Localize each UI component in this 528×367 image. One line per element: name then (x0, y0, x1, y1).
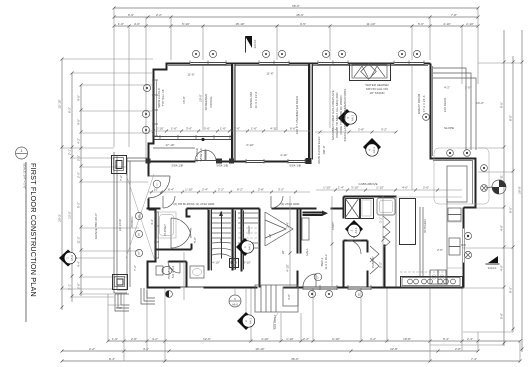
svg-text:A4.1: A4.1 (248, 244, 252, 251)
svg-text:GRADE TBD 96'-6": GRADE TBD 96'-6" (94, 213, 98, 239)
top wall label 11-10 (165, 72, 483, 158)
svg-text:KITCHEN: KITCHEN (423, 219, 427, 232)
svg-text:9'-5": 9'-5" (300, 22, 306, 26)
svg-text:3'-6": 3'-6" (234, 127, 240, 131)
interior vertical dim great room (199, 66, 413, 190)
bedroom door arc (271, 196, 283, 208)
powder room walls (148, 262, 187, 288)
covered deck right dashed (434, 148, 489, 204)
svg-text:1'-0": 1'-0" (465, 86, 471, 90)
interior dim row office y130 (148, 127, 310, 133)
interior wall hall east (298, 209, 301, 288)
exterior wall left entry segment (148, 162, 150, 210)
interior vertical dim laundry right (379, 196, 385, 287)
svg-text:SLOPE: SLOPE (444, 126, 454, 130)
bottom extension drop lines (108, 288, 520, 361)
svg-text:5'-10": 5'-10" (182, 22, 190, 26)
svg-text:(2) PR BI-PASS: (2) PR BI-PASS (173, 202, 194, 206)
svg-text:6'-4": 6'-4" (168, 188, 174, 192)
dimension row top 1 overall (113, 4, 480, 10)
svg-text:1'-6": 1'-6" (220, 127, 226, 131)
svg-text:E: E (138, 252, 140, 256)
notes fireplace top (365, 83, 389, 95)
svg-text:A4.1: A4.1 (372, 147, 376, 154)
porch 5-0 label (108, 305, 130, 310)
closet bipass doors (150, 202, 195, 248)
svg-text:PORCH: PORCH (130, 217, 134, 228)
svg-text:45'-6": 45'-6" (296, 13, 304, 17)
svg-text:4'-0": 4'-0" (287, 294, 291, 300)
svg-text:36'-6": 36'-6" (291, 357, 299, 361)
svg-text:2'-6": 2'-6" (437, 248, 443, 252)
exterior wall left lower (148, 210, 156, 289)
washer box (345, 198, 360, 219)
bath door arc (163, 196, 175, 208)
pantry walls (344, 241, 368, 288)
bench box laundry (377, 198, 395, 215)
svg-text:16'-0 SGD: 16'-0 SGD (195, 147, 199, 162)
svg-text:11'-6": 11'-6" (187, 73, 194, 77)
svg-text:13'-2": 13'-2" (68, 211, 72, 219)
svg-text:A5.0: A5.0 (70, 255, 74, 262)
room label great (417, 93, 426, 114)
svg-text:2'-2": 2'-2" (156, 13, 162, 17)
hall door arc (303, 274, 316, 287)
svg-text:WDW 2-0: WDW 2-0 (199, 148, 203, 161)
great room south wall (147, 209, 344, 217)
right wall window bubble (423, 114, 430, 121)
powder door arc (168, 261, 180, 273)
entry front wall (149, 139, 233, 162)
svg-text:4'-6": 4'-6" (134, 22, 140, 26)
notes under top wall office (157, 88, 165, 108)
porch post bottom (113, 275, 128, 290)
svg-text:TYP SILL 18: TYP SILL 18 (161, 89, 165, 106)
dimension row bottom 1 (107, 337, 522, 343)
svg-text:E: E (138, 233, 140, 237)
svg-text:8'-2": 8'-2" (68, 107, 72, 113)
svg-text:OFFICE: OFFICE (209, 97, 213, 108)
svg-text:5'-6": 5'-6" (418, 22, 424, 26)
svg-text:CLOSET: CLOSET (163, 224, 167, 236)
svg-text:12'-6": 12'-6" (203, 337, 211, 341)
svg-text:A4.1: A4.1 (354, 227, 358, 234)
svg-text:3'-6": 3'-6" (186, 127, 192, 131)
svg-text:11-6 X 10-2: 11-6 X 10-2 (324, 254, 328, 270)
svg-text:1'-10": 1'-10" (323, 186, 331, 190)
svg-text:7'-2": 7'-2" (119, 175, 123, 181)
svg-text:2X6 P.T. PERIMETER DECK: 2X6 P.T. PERIMETER DECK (295, 96, 299, 134)
svg-text:16'-0": 16'-0" (182, 96, 186, 104)
room label dining (249, 91, 258, 108)
svg-text:2'-8": 2'-8" (358, 128, 364, 132)
exterior wall bottom (148, 285, 464, 290)
svg-text:(2) 2X10 HDR: (2) 2X10 HDR (196, 202, 216, 206)
svg-text:2'-8": 2'-8" (455, 347, 461, 351)
svg-text:6'-10": 6'-10" (332, 337, 340, 341)
svg-text:20'-3": 20'-3" (58, 214, 62, 222)
dimension column right 1 (500, 30, 506, 346)
mudroom bench (302, 218, 309, 240)
svg-text:8'-5": 8'-5" (509, 207, 513, 213)
wd notes above laundry (358, 182, 377, 186)
stair newel post (230, 259, 239, 268)
small x marks (306, 158, 312, 164)
svg-text:30": 30" (281, 250, 285, 254)
deck note dining wall (295, 96, 299, 134)
svg-text:2'-4": 2'-4" (467, 337, 473, 341)
svg-text:4'-0": 4'-0" (500, 265, 504, 271)
stair flight east (265, 212, 293, 254)
section marker diamond stairs (236, 238, 254, 256)
svg-text:4'-4": 4'-4" (77, 261, 81, 267)
svg-text:12'-10": 12'-10" (58, 99, 62, 108)
svg-text:3'-1": 3'-1" (379, 217, 383, 223)
svg-text:4'-10": 4'-10" (443, 22, 451, 26)
svg-text:56'-6": 56'-6" (292, 4, 300, 8)
svg-text:4'-5": 4'-5" (77, 95, 81, 101)
svg-text:4'-3": 4'-3" (150, 219, 154, 225)
svg-text:1'-6": 1'-6" (118, 22, 124, 26)
svg-text:5'-6": 5'-6" (204, 127, 210, 131)
svg-text:4'-4": 4'-4" (143, 347, 149, 351)
svg-text:4'-2": 4'-2" (444, 86, 450, 90)
interior dim row great room y132 (315, 128, 398, 134)
column squares along entry wall (146, 159, 235, 164)
elevation marker porch left (59, 250, 114, 267)
exterior wall right kitchen (461, 208, 466, 288)
svg-text:LINEN: LINEN (247, 226, 251, 235)
title bubble (16, 147, 28, 159)
laundry north wall (344, 197, 397, 219)
svg-text:E: E (138, 215, 140, 219)
dryer box (361, 199, 374, 219)
svg-text:3'-10": 3'-10" (351, 186, 359, 190)
svg-text:1'-10": 1'-10" (376, 186, 384, 190)
svg-text:LNDY: LNDY (331, 222, 335, 230)
svg-text:3'-2": 3'-2" (370, 337, 376, 341)
svg-text:A4.1: A4.1 (249, 318, 253, 325)
kitchen west boundary (395, 196, 397, 287)
kitchen counter line (396, 197, 463, 285)
svg-text:11'-6 X 13'-0: 11'-6 X 13'-0 (254, 91, 258, 108)
svg-text:4'-0": 4'-0" (500, 225, 504, 231)
flag marker 2/A4.0 top (245, 36, 257, 53)
right extension tick lines (430, 63, 522, 345)
svg-text:1'-6": 1'-6" (171, 127, 177, 131)
svg-text:3/S4.1/B: 3/S4.1/B (289, 164, 301, 168)
svg-text:10'-8": 10'-8" (403, 337, 411, 341)
porch steps bottom-left (115, 288, 155, 311)
left extension tick lines (62, 59, 153, 297)
svg-text:(2) 2X10: (2) 2X10 (118, 219, 122, 231)
top extension drop lines (114, 8, 478, 160)
svg-text:6X6 POST: 6X6 POST (273, 315, 277, 330)
svg-text:5'-0": 5'-0" (193, 237, 197, 243)
grade note left (94, 213, 98, 239)
kitchen island (400, 199, 428, 245)
svg-text:7'-8": 7'-8" (451, 13, 457, 17)
svg-text:4'-10": 4'-10" (212, 261, 220, 265)
top wall windows (190, 61, 425, 66)
interior dim row entry y192 (148, 188, 310, 194)
dimension row bottom 2 (61, 347, 480, 353)
svg-text:1'-10": 1'-10" (185, 188, 193, 192)
interior vertical dim hall (286, 196, 292, 287)
hall room labels (193, 222, 375, 268)
svg-text:26'-9": 26'-9" (518, 186, 522, 194)
dimension column left 1 (58, 58, 64, 311)
section marker diamond great room 1 (338, 109, 357, 127)
svg-text:GREAT ROOM: GREAT ROOM (417, 93, 421, 114)
kitchen sink (449, 238, 460, 255)
porch edge left (114, 148, 195, 293)
svg-text:A4.1: A4.1 (351, 115, 355, 122)
svg-text:4'-10": 4'-10" (243, 261, 251, 265)
svg-text:5'-0": 5'-0" (116, 306, 122, 310)
svg-text:2'-10": 2'-10" (156, 127, 164, 131)
hall overlook wall stub (303, 211, 329, 217)
section marker diamond laundry (345, 220, 363, 238)
svg-text:HALL: HALL (305, 248, 309, 256)
svg-text:2/A4.0: 2/A4.0 (253, 39, 257, 48)
svg-text:11'-2": 11'-2" (77, 236, 81, 243)
office sw jog (149, 137, 154, 162)
svg-text:4'-10": 4'-10" (286, 264, 290, 272)
office front window wall (154, 135, 233, 140)
svg-text:4'-10": 4'-10" (261, 337, 269, 341)
svg-text:6'-6": 6'-6" (128, 13, 134, 17)
exterior wall top-left jog (154, 63, 167, 139)
svg-text:2'-1": 2'-1" (68, 149, 72, 155)
sill labels under entry wall (171, 164, 301, 168)
svg-text:11'-6": 11'-6" (266, 72, 273, 76)
svg-text:2'-3": 2'-3" (77, 172, 81, 178)
svg-text:MAIN FLOOR ELEV: MAIN FLOOR ELEV (317, 136, 321, 163)
deck post circles (447, 150, 488, 259)
interior stair wall (242, 209, 244, 272)
svg-text:5'-2": 5'-2" (77, 202, 81, 208)
porch roof diagonal (118, 174, 154, 258)
svg-text:CABS ABOVE: CABS ABOVE (358, 182, 377, 186)
svg-text:PANTRY: PANTRY (371, 256, 375, 268)
wdw label dot (201, 138, 204, 141)
svg-text:7'-4": 7'-4" (471, 357, 477, 361)
master bath tub (157, 212, 176, 238)
svg-text:1'-6": 1'-6" (112, 337, 118, 341)
deck steps top right (433, 68, 476, 150)
svg-text:16'-10": 16'-10" (255, 347, 264, 351)
section marker diamond below plan (237, 288, 255, 330)
bath closet wall (156, 209, 212, 271)
dimension column left 3 (77, 84, 83, 297)
svg-text:3'-2": 3'-2" (278, 188, 284, 192)
laundry door arc (347, 240, 361, 254)
interior vertical dim laundry mid (331, 196, 334, 287)
main floor elev note (317, 136, 326, 163)
svg-text:17'-2 X 24'-6: 17'-2 X 24'-6 (422, 95, 426, 112)
powder toilet (156, 266, 172, 275)
svg-text:6'-2": 6'-2" (237, 188, 243, 192)
keyplan circle right (486, 180, 506, 194)
svg-text:2'-4": 2'-4" (202, 188, 208, 192)
svg-text:1'-4": 1'-4" (338, 186, 344, 190)
svg-text:8'-5": 8'-5" (500, 102, 504, 108)
room label office (182, 93, 213, 111)
interior dim row laundry y190 (316, 186, 462, 192)
svg-text:DINING RM: DINING RM (249, 92, 253, 109)
svg-text:7'-2": 7'-2" (133, 265, 137, 271)
svg-text:4'-6": 4'-6" (402, 186, 408, 190)
svg-text:100'-0": 100'-0" (322, 145, 326, 154)
svg-text:1'-10": 1'-10" (286, 337, 294, 341)
powder sink (190, 266, 204, 278)
door bubble hall (314, 273, 322, 281)
kitchen lower cabinets (430, 270, 446, 284)
interior wall dining/great (308, 64, 312, 162)
exterior wall top (167, 64, 431, 66)
svg-text:17'-10": 17'-10" (165, 143, 174, 147)
svg-text:UP: UP (268, 234, 272, 238)
wdw note entry (195, 147, 203, 162)
linen label (247, 226, 251, 235)
svg-text:2'-6": 2'-6" (423, 186, 429, 190)
kitchen upper cabinets dashed (400, 207, 447, 276)
svg-text:SCREENED: SCREENED (204, 93, 208, 111)
marker half-dark circle bottom wall (166, 291, 173, 298)
svg-text:3/S4.1/B: 3/S4.1/B (216, 164, 228, 168)
svg-text:15'-10": 15'-10" (235, 22, 244, 26)
svg-text:1'-6": 1'-6" (251, 127, 257, 131)
svg-text:18" STAND: 18" STAND (369, 91, 385, 95)
svg-text:A6.0: A6.0 (232, 303, 239, 307)
svg-text:5'-4": 5'-4" (443, 337, 449, 341)
svg-text:3'-2": 3'-2" (381, 128, 387, 132)
title text (23, 162, 39, 322)
hall closet texts (320, 254, 328, 270)
svg-text:2X6 DECK: 2X6 DECK (443, 98, 447, 113)
svg-text:DN: DN (219, 238, 223, 242)
interior wall office/dining (231, 64, 235, 162)
svg-text:4'-11": 4'-11" (280, 153, 287, 157)
svg-text:11'-10": 11'-10" (366, 22, 375, 26)
svg-text:1: 1 (21, 149, 23, 153)
rear stoop steps bottom center (255, 285, 298, 330)
svg-text:2'-2": 2'-2" (218, 188, 224, 192)
pantry shelves chevrons (370, 216, 390, 288)
svg-text:5'-2": 5'-2" (379, 262, 383, 268)
front door arc (148, 176, 170, 198)
section marker diamond great room 2 (363, 138, 381, 156)
dining front wall with sliding doors (233, 159, 306, 164)
dimension row bottom 3 (61, 357, 522, 363)
svg-text:3'-10": 3'-10" (246, 143, 254, 147)
dimension column right 3 (518, 30, 524, 352)
porch label (119, 175, 137, 271)
svg-text:2'-10": 2'-10" (466, 22, 474, 26)
window bubbles lower left (135, 212, 142, 256)
kitchen range (401, 277, 463, 288)
svg-text:FIRST FLOOR CONSTRUCTION PLAN: FIRST FLOOR CONSTRUCTION PLAN (29, 163, 38, 297)
svg-text:22'-8": 22'-8" (390, 347, 398, 351)
svg-text:2'-8": 2'-8" (258, 188, 264, 192)
svg-text:1/A4.0: 1/A4.0 (488, 266, 497, 270)
porch post top (112, 156, 127, 174)
svg-text:20'-0": 20'-0" (199, 94, 203, 102)
svg-text:10": 10" (154, 188, 158, 192)
svg-text:8'-3": 8'-3" (509, 287, 513, 293)
svg-text:5'-8": 5'-8" (500, 313, 504, 319)
lower left wall windows (154, 212, 159, 259)
svg-text:8'-5": 8'-5" (509, 115, 513, 121)
flag marker 1/A4.0 right (486, 256, 500, 270)
notes column fireplace left (331, 89, 347, 142)
dimension row top 2 (113, 13, 480, 19)
window bubbles top row (192, 50, 420, 57)
window bubbles office left (142, 84, 150, 133)
powder labels (167, 252, 184, 300)
dimension row top 3 (113, 22, 480, 28)
leader dim texts lower right (437, 248, 443, 252)
exterior wall nook jog (431, 64, 476, 208)
window bubbles bottom row (308, 290, 362, 297)
dimension column right 2 (509, 56, 515, 332)
svg-text:4'-5": 4'-5" (77, 119, 81, 125)
svg-text:3'-4": 3'-4" (286, 222, 290, 228)
svg-text:3/S4.1/B: 3/S4.1/B (171, 164, 183, 168)
stair flight west (196, 202, 301, 271)
svg-text:2'-8": 2'-8" (131, 337, 137, 341)
fireplace (350, 64, 391, 81)
svg-text:14'-0": 14'-0" (476, 101, 484, 105)
svg-text:2'-2": 2'-2" (89, 347, 95, 351)
marker circle A6.0 (229, 288, 241, 307)
interior wall hall west (259, 209, 261, 288)
svg-text:4'-2": 4'-2" (152, 337, 158, 341)
svg-text:8'-4": 8'-4" (109, 357, 115, 361)
svg-text:(2) 2X10 HDR: (2) 2X10 HDR (281, 202, 301, 206)
french doors arcs (195, 150, 216, 161)
dimension column left 2 (68, 72, 74, 303)
svg-text:4'-2": 4'-2" (77, 138, 81, 144)
door bubble entry (153, 180, 161, 188)
svg-text:2'-2": 2'-2" (303, 337, 309, 341)
svg-text:4'-11": 4'-11" (270, 127, 277, 131)
svg-text:2'-8": 2'-8" (77, 283, 81, 289)
office left wall windows (152, 80, 158, 137)
svg-text:INSTALLATION RECOMMENDATIONS: INSTALLATION RECOMMENDATIONS (343, 89, 347, 142)
